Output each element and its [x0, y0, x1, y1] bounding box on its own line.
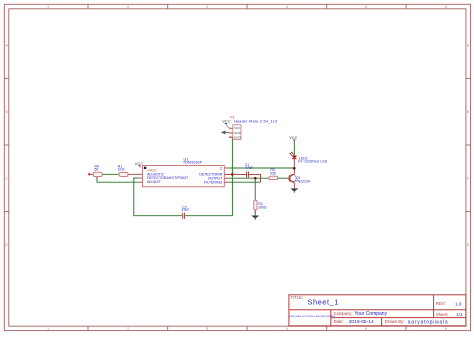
svg-text:VCC: VCC	[234, 126, 241, 130]
svg-text:330: 330	[270, 172, 276, 176]
svg-text:Drawn By:: Drawn By:	[385, 319, 404, 324]
svg-text:6: 6	[445, 5, 447, 9]
svg-text:5: 5	[365, 327, 367, 331]
svg-text:Your Company: Your Company	[354, 311, 387, 317]
svg-text:2019-05-14: 2019-05-14	[349, 319, 374, 325]
svg-text:2: 2	[127, 5, 129, 9]
svg-text:4: 4	[286, 327, 288, 331]
svg-text:VCC: VCC	[222, 119, 230, 124]
svg-text:1: 1	[47, 5, 49, 9]
svg-text:1KΩ: 1KΩ	[118, 167, 125, 171]
svg-text:Header-Male-2.54_1x3: Header-Male-2.54_1x3	[234, 119, 277, 123]
svg-text:5K: 5K	[95, 167, 100, 171]
svg-text:Company:: Company:	[334, 311, 353, 316]
svg-text:2: 2	[127, 327, 129, 331]
svg-text:47nF: 47nF	[182, 208, 190, 212]
svg-text:GND: GND	[234, 131, 242, 135]
svg-text:aaryatopiwala: aaryatopiwala	[408, 319, 449, 325]
svg-text:PN2222A: PN2222A	[296, 180, 311, 184]
svg-text:6: 6	[445, 327, 447, 331]
svg-text:3: 3	[206, 327, 208, 331]
svg-text:Sheet_1: Sheet_1	[308, 297, 339, 306]
svg-text:TITLE:: TITLE:	[291, 295, 304, 300]
svg-text:47nF: 47nF	[245, 166, 253, 170]
svg-text:REV:: REV:	[436, 301, 446, 306]
svg-text:5: 5	[365, 5, 367, 9]
svg-text:Sheet:: Sheet:	[436, 312, 448, 317]
svg-text:TDA0161DP: TDA0161DP	[183, 160, 203, 164]
svg-text:VCC: VCC	[135, 161, 143, 166]
svg-text:DATA: DATA	[234, 135, 242, 139]
svg-text:C: C	[220, 167, 223, 171]
svg-text:KT-1206Red LED: KT-1206Red LED	[298, 160, 328, 164]
svg-text:1: 1	[47, 327, 49, 331]
svg-text:1.0: 1.0	[455, 301, 462, 306]
svg-text:FILTERING: FILTERING	[204, 180, 223, 184]
svg-text:100Ω: 100Ω	[258, 206, 267, 210]
svg-text:3: 3	[206, 5, 208, 9]
svg-text:ADJUST: ADJUST	[147, 180, 162, 184]
svg-text:VCC: VCC	[289, 135, 297, 140]
svg-text:easyeda.com/user.aaryatopiwala: easyeda.com/user.aaryatopiwala	[289, 314, 335, 318]
svg-text:1/1: 1/1	[456, 312, 463, 317]
svg-text:4: 4	[286, 5, 288, 9]
svg-text:Date:: Date:	[334, 319, 344, 324]
